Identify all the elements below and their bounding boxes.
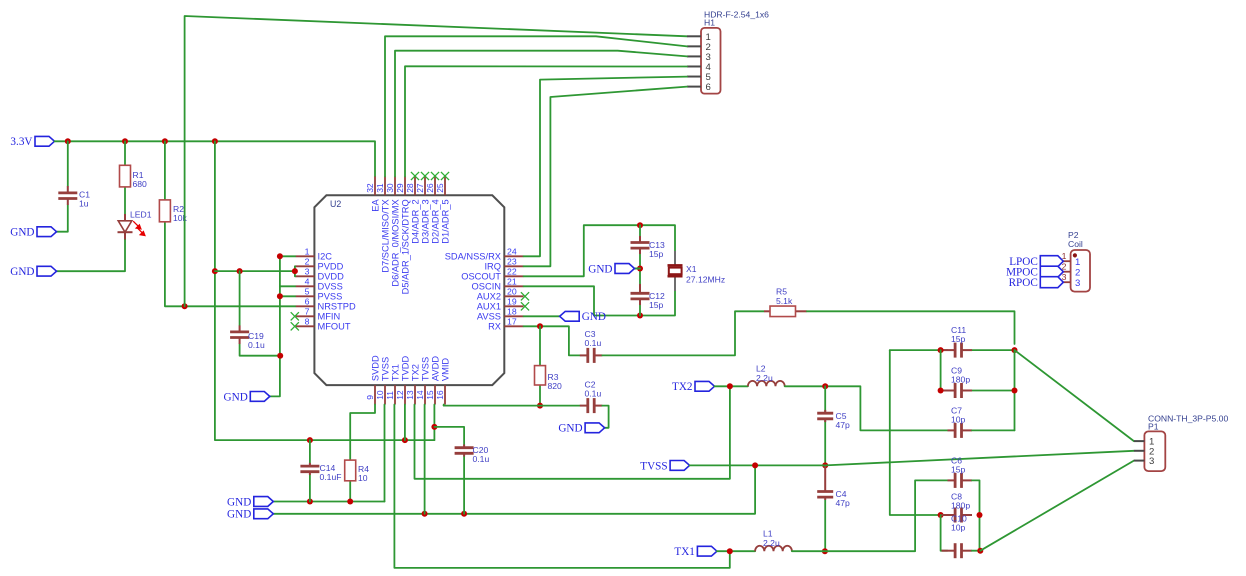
junction C4/TX1 bbox=[822, 548, 828, 554]
junction R4/row1 bbox=[347, 499, 353, 505]
svg-text:26: 26 bbox=[425, 183, 435, 193]
wire TX1 line bbox=[717, 550, 755, 552]
svg-text:1u: 1u bbox=[79, 199, 89, 209]
net label RPOC bbox=[1009, 277, 1064, 289]
wire C20 bottom lead bbox=[463, 457, 465, 514]
junction C14/row1 bbox=[307, 499, 313, 505]
capacitor C14 bbox=[300, 463, 341, 482]
junction NRSTPD/H1 wire bbox=[182, 303, 188, 309]
capacitor C2 bbox=[580, 379, 603, 413]
wire TX2 pin13 jog bbox=[415, 386, 730, 479]
crystal X1 bbox=[668, 251, 726, 291]
wire crystal GND stub bbox=[635, 268, 641, 270]
svg-text:GND: GND bbox=[10, 227, 34, 239]
wire H1 pin5 to U2 pin24 bbox=[524, 77, 688, 257]
junction 3.3V/R1 bbox=[122, 138, 128, 144]
U2 pin 3 DVDD bbox=[296, 267, 344, 282]
wire C10 right bbox=[972, 550, 980, 552]
wire H1 pin4 to U2 pin29 bbox=[405, 66, 687, 176]
U2 pin 31 D7/SCL/MISO/TX bbox=[375, 177, 390, 273]
svg-text:MFOUT: MFOUT bbox=[318, 322, 351, 332]
capacitor C4 bbox=[817, 465, 850, 508]
wire H1 pin2 to U2 pin31 bbox=[385, 36, 687, 176]
U2 pin 27 D3/ADR_3 bbox=[415, 177, 430, 244]
svg-text:0.1uF: 0.1uF bbox=[320, 472, 342, 482]
capacitor C11 bbox=[942, 325, 973, 358]
svg-text:D3/ADR_3: D3/ADR_3 bbox=[420, 199, 430, 243]
no-connect pin 25 bbox=[441, 172, 449, 180]
svg-text:U2: U2 bbox=[330, 199, 341, 209]
capacitor C19 bbox=[230, 325, 265, 350]
svg-text:NRSTPD: NRSTPD bbox=[318, 302, 357, 312]
junction TX2/jog bbox=[727, 383, 733, 389]
H1 pin 1 bbox=[687, 32, 711, 43]
H1 pin 4 bbox=[687, 62, 712, 73]
svg-text:X1: X1 bbox=[686, 264, 697, 274]
junction C14/rail bbox=[307, 437, 313, 443]
junction pin14/row2 bbox=[422, 511, 428, 517]
capacitor C6 bbox=[948, 456, 973, 488]
wire R3 top lead bbox=[539, 326, 541, 365]
resistor R3 bbox=[535, 366, 563, 391]
P1 pin 1 bbox=[1134, 437, 1154, 448]
svg-text:GND: GND bbox=[582, 311, 606, 323]
U2 pin 18 AVSS bbox=[477, 307, 524, 322]
svg-text:31: 31 bbox=[375, 183, 385, 193]
svg-text:DVDD: DVDD bbox=[318, 272, 345, 282]
svg-text:47p: 47p bbox=[836, 498, 851, 508]
U2 pin 30 D6/ADR_0/MOSI/MX bbox=[385, 177, 400, 287]
svg-text:IRQ: IRQ bbox=[484, 262, 501, 272]
svg-text:MFIN: MFIN bbox=[318, 312, 341, 322]
no-connect pin 19 AUX1 bbox=[521, 302, 529, 310]
svg-text:15: 15 bbox=[425, 390, 435, 400]
junction C5 top bbox=[822, 383, 828, 389]
svg-text:18: 18 bbox=[507, 307, 517, 317]
junction C10 right bbox=[977, 548, 983, 554]
U2 pin 24 SDA/NSS/RX bbox=[445, 247, 524, 262]
svg-text:6: 6 bbox=[706, 82, 711, 93]
no-connect pin 28 bbox=[411, 172, 419, 180]
U2 pin 29 D5/ADR_1/SCK/DTRQ bbox=[395, 177, 410, 295]
P1 pin 2 bbox=[1134, 446, 1154, 457]
svg-text:0.1u: 0.1u bbox=[248, 340, 265, 350]
connector P1 bbox=[1144, 414, 1228, 472]
wire diagonal C11 to P1 pin1 bbox=[1015, 350, 1134, 441]
svg-text:D6/ADR_0/MOSI/MX: D6/ADR_0/MOSI/MX bbox=[390, 199, 400, 286]
junction crystal GND bbox=[637, 266, 643, 272]
wire VDD feed vertical bbox=[215, 141, 435, 440]
wire OSCIN to crystal bottom bbox=[524, 286, 676, 315]
svg-text:RPOC: RPOC bbox=[1009, 277, 1038, 289]
svg-text:1: 1 bbox=[305, 247, 310, 257]
wire left ground vertical bbox=[270, 256, 280, 396]
svg-text:17: 17 bbox=[507, 317, 517, 327]
svg-text:4: 4 bbox=[305, 277, 310, 287]
U2 pin 25 D1/ADR_5 bbox=[435, 177, 450, 244]
P2 pin 2 bbox=[1061, 261, 1080, 278]
junction 3.3V/C1 bbox=[65, 138, 71, 144]
U2 pin 9 SVDD bbox=[365, 355, 380, 405]
svg-text:H1: H1 bbox=[704, 18, 715, 28]
P2 pin 1 bbox=[1061, 251, 1080, 268]
H1 pin 3 bbox=[687, 52, 711, 63]
wire C5 bottom lead bbox=[824, 419, 826, 465]
P2 pin 3 bbox=[1061, 272, 1080, 289]
capacitor C12 bbox=[631, 284, 665, 310]
svg-text:22: 22 bbox=[507, 267, 517, 277]
wire AVDD pin15 down bbox=[433, 405, 435, 441]
svg-text:21: 21 bbox=[507, 277, 517, 287]
svg-text:15p: 15p bbox=[649, 300, 664, 310]
junction TVDD/rail bbox=[402, 437, 408, 443]
wire C19 bottom bbox=[240, 344, 281, 356]
svg-text:1: 1 bbox=[1075, 257, 1080, 268]
U2 pin 15 AVDD bbox=[425, 356, 440, 405]
U2 pin 14 TVSS bbox=[415, 357, 430, 405]
wire TVSS pin14 down bbox=[424, 405, 426, 514]
svg-text:GND: GND bbox=[224, 391, 248, 403]
wire C9 row left bbox=[941, 390, 948, 392]
power label 3.3V bbox=[10, 136, 54, 148]
wire TX1 pin11 jog bbox=[394, 405, 729, 568]
net label TX2 bbox=[672, 381, 715, 393]
junction TVSS/row2 bbox=[752, 462, 758, 468]
LED LED1 bbox=[118, 210, 152, 241]
net label TX1 bbox=[674, 546, 717, 558]
resistor R2 bbox=[159, 200, 187, 223]
wire TVSS diagonal to P1 pin2 bbox=[825, 451, 1134, 466]
net label LPOC bbox=[1009, 256, 1063, 268]
wire C8-C10 left vertical bbox=[941, 515, 948, 551]
IC U2 bbox=[314, 195, 504, 385]
svg-text:6: 6 bbox=[305, 297, 310, 307]
svg-text:13: 13 bbox=[405, 390, 415, 400]
wire C12 bottom lead bbox=[639, 305, 641, 316]
no-connect pin 8 MFOUT bbox=[291, 322, 299, 330]
svg-text:AUX1: AUX1 bbox=[477, 302, 501, 312]
svg-text:GND: GND bbox=[588, 263, 612, 275]
svg-text:VMID: VMID bbox=[440, 358, 450, 382]
wire R1 top bbox=[124, 141, 126, 165]
svg-text:29: 29 bbox=[395, 183, 405, 193]
svg-text:8: 8 bbox=[305, 317, 310, 327]
svg-text:25: 25 bbox=[435, 183, 445, 193]
wire C7 right bbox=[972, 429, 1015, 431]
wire VMID line bbox=[443, 405, 445, 406]
svg-text:OSCOUT: OSCOUT bbox=[461, 272, 501, 282]
junction C20 branch bbox=[431, 424, 437, 430]
wire C14 top lead bbox=[309, 440, 311, 463]
svg-text:16: 16 bbox=[435, 390, 445, 400]
wire L1 to C6 bbox=[792, 480, 948, 551]
wire R4 bottom lead bbox=[349, 481, 351, 502]
svg-text:TX1: TX1 bbox=[390, 364, 400, 381]
capacitor C8 bbox=[942, 492, 973, 523]
wire I2C pin1 left bbox=[280, 255, 296, 257]
wire GND row1 bbox=[273, 501, 384, 503]
U2 pin 6 NRSTPD bbox=[296, 297, 356, 312]
U2 pin 28 D4/ADR_2 bbox=[405, 177, 420, 244]
svg-text:11: 11 bbox=[385, 391, 395, 400]
capacitor C9 bbox=[942, 366, 973, 399]
ground label GND (C1) bbox=[10, 227, 56, 239]
svg-text:30: 30 bbox=[385, 183, 395, 193]
wire VMID to C2 bbox=[444, 405, 580, 407]
svg-text:TX1: TX1 bbox=[674, 546, 695, 558]
svg-text:D2/ADR_4: D2/ADR_4 bbox=[430, 199, 440, 243]
wire L2 to C5 bbox=[785, 386, 948, 430]
wire TVSS line bbox=[690, 464, 826, 466]
capacitor C20 bbox=[455, 445, 490, 465]
svg-text:D1/ADR_5: D1/ADR_5 bbox=[440, 199, 450, 243]
svg-text:GND: GND bbox=[558, 423, 582, 435]
svg-text:0.1u: 0.1u bbox=[585, 388, 602, 398]
svg-text:180p: 180p bbox=[951, 375, 970, 385]
wire TX2 line bbox=[715, 385, 748, 387]
junction C8 right bbox=[977, 512, 983, 518]
svg-text:15p: 15p bbox=[951, 465, 966, 475]
svg-text:2.2u: 2.2u bbox=[763, 538, 780, 548]
junction pin1 vertical bbox=[277, 253, 283, 259]
svg-text:5.1k: 5.1k bbox=[776, 296, 793, 306]
wire C1 bottom to GND bbox=[57, 205, 68, 232]
junction C5/TVSS bbox=[822, 462, 828, 468]
svg-text:10p: 10p bbox=[951, 523, 966, 533]
wire pin5 branch bbox=[280, 295, 296, 297]
resistor R5 bbox=[764, 287, 807, 317]
capacitor C7 bbox=[948, 406, 973, 438]
U2 pin 4 DVSS bbox=[296, 277, 343, 292]
wire C1 top bbox=[67, 141, 69, 186]
svg-text:3: 3 bbox=[1149, 456, 1154, 467]
svg-text:23: 23 bbox=[507, 257, 517, 267]
svg-text:SVDD: SVDD bbox=[370, 355, 380, 381]
capacitor C10 bbox=[942, 514, 973, 559]
wire AVSS to GND bbox=[524, 315, 560, 317]
wire C20 branch bbox=[434, 427, 464, 445]
junction 3.3V/R2 bbox=[162, 138, 168, 144]
H1 pin 2 bbox=[687, 42, 711, 53]
U2 pin 19 AUX1 bbox=[477, 297, 524, 312]
svg-text:GND: GND bbox=[227, 509, 251, 521]
junction C11 right bbox=[1012, 347, 1018, 353]
svg-text:32: 32 bbox=[365, 183, 375, 193]
U2 pin 16 VMID bbox=[435, 358, 450, 405]
svg-text:D5/ADR_1/SCK/DTRQ: D5/ADR_1/SCK/DTRQ bbox=[400, 199, 410, 294]
svg-text:GND: GND bbox=[227, 496, 251, 508]
inductor L2 bbox=[748, 364, 785, 387]
wire LED1 cathode to GND bbox=[57, 240, 126, 271]
junction C11 left bbox=[938, 347, 944, 353]
no-connect pin 26 bbox=[431, 172, 439, 180]
svg-text:27: 27 bbox=[415, 183, 425, 193]
capacitor C3 bbox=[580, 329, 603, 363]
U2 pin 32 EA bbox=[365, 177, 380, 212]
wire C11-C9 left vertical bbox=[940, 350, 942, 390]
wire C13-C12 mid bbox=[639, 254, 641, 284]
svg-text:CONN-TH_3P-P5.00: CONN-TH_3P-P5.00 bbox=[1148, 414, 1228, 424]
svg-text:3.3V: 3.3V bbox=[10, 136, 32, 148]
svg-text:5: 5 bbox=[305, 287, 310, 297]
svg-text:3: 3 bbox=[305, 267, 310, 277]
U2 pin 5 PVSS bbox=[296, 287, 342, 302]
inductor L1 bbox=[755, 529, 792, 552]
U2 pin 8 MFOUT bbox=[296, 317, 351, 332]
wire OSCOUT to crystal top bbox=[524, 225, 676, 276]
connector H1 bbox=[701, 10, 769, 94]
wire GND row2 bbox=[273, 465, 755, 513]
no-connect pin 20 AUX2 bbox=[521, 292, 529, 300]
wire C14 bottom lead bbox=[309, 475, 311, 502]
junction C19 bottom bbox=[277, 353, 283, 359]
svg-text:180p: 180p bbox=[951, 501, 970, 511]
H1 pin 5 bbox=[687, 72, 711, 83]
svg-text:P1: P1 bbox=[1148, 422, 1159, 432]
svg-text:AUX2: AUX2 bbox=[477, 292, 501, 302]
junction C19 top bbox=[237, 268, 243, 274]
P1 pin 3 bbox=[1134, 456, 1154, 467]
no-connect pin 27 bbox=[421, 172, 429, 180]
junction C9 right bbox=[1012, 388, 1018, 394]
capacitor C13 bbox=[631, 236, 665, 259]
junction RX/R3 bbox=[537, 323, 543, 329]
junction pins2-3 tee bbox=[292, 268, 298, 274]
svg-text:PVSS: PVSS bbox=[318, 292, 343, 302]
svg-text:7: 7 bbox=[305, 307, 310, 317]
ground label GND (LED1) bbox=[10, 266, 56, 278]
svg-text:SDA/NSS/RX: SDA/NSS/RX bbox=[445, 252, 501, 262]
wire C11 row left bbox=[890, 349, 948, 351]
wire C9 row right bbox=[972, 390, 1015, 392]
wire R1 to LED1 bbox=[124, 187, 126, 221]
svg-text:3: 3 bbox=[1075, 278, 1080, 289]
wire pin4 branch bbox=[280, 285, 296, 287]
svg-text:LED1: LED1 bbox=[130, 210, 152, 220]
svg-text:12: 12 bbox=[395, 390, 405, 400]
wire PVDD line bbox=[215, 266, 296, 271]
capacitor C1 bbox=[58, 186, 90, 209]
svg-text:L2: L2 bbox=[756, 364, 766, 374]
svg-text:2: 2 bbox=[1075, 268, 1080, 279]
net label MPOC bbox=[1006, 266, 1063, 278]
junction C8 left bbox=[938, 512, 944, 518]
wire R2 bottom to NRSTPD bbox=[165, 222, 296, 306]
U2 pin 22 OSCOUT bbox=[461, 267, 523, 282]
wire RX line bbox=[524, 326, 580, 355]
resistor R4 bbox=[345, 460, 370, 483]
wire H1 pin3 to U2 pin30 bbox=[395, 51, 687, 177]
svg-text:0.1u: 0.1u bbox=[585, 338, 602, 348]
wire NRSTPD to H1 pin1 bbox=[185, 16, 687, 306]
U2 pin 11 TX1 bbox=[385, 364, 400, 404]
svg-text:TX2: TX2 bbox=[672, 381, 693, 393]
wire C3 to matching bbox=[602, 311, 764, 355]
svg-text:2.2u: 2.2u bbox=[756, 373, 773, 383]
wire C6 right down bbox=[972, 480, 980, 550]
wire C13 top lead bbox=[639, 225, 641, 236]
ground label GND (AVSS) bbox=[560, 311, 606, 323]
svg-text:D4/ADR_2: D4/ADR_2 bbox=[410, 199, 420, 243]
net label TVSS bbox=[640, 460, 689, 472]
svg-text:RX: RX bbox=[488, 322, 501, 332]
junction C9 left bbox=[938, 388, 944, 394]
svg-text:AVDD: AVDD bbox=[430, 356, 440, 381]
svg-text:2: 2 bbox=[305, 257, 310, 267]
svg-text:10: 10 bbox=[375, 390, 385, 400]
ground label GND (crystal) bbox=[588, 263, 634, 275]
U2 pin 13 TX2 bbox=[405, 364, 420, 404]
svg-text:24: 24 bbox=[507, 247, 517, 257]
svg-text:TX2: TX2 bbox=[410, 364, 420, 381]
wire C19 top lead bbox=[239, 271, 241, 325]
svg-text:TVSS: TVSS bbox=[380, 357, 390, 381]
ground label GND (row1) bbox=[227, 496, 273, 508]
svg-text:I2C: I2C bbox=[318, 252, 333, 262]
svg-text:9: 9 bbox=[365, 395, 375, 400]
junction TX1/jog bbox=[727, 548, 733, 554]
wire diagonal C10 to P1 pin3 bbox=[980, 461, 1134, 551]
svg-text:20: 20 bbox=[507, 287, 517, 297]
junction C12 bottom bbox=[637, 313, 643, 319]
U2 pin 2 PVDD bbox=[296, 257, 344, 272]
svg-text:14: 14 bbox=[415, 390, 425, 400]
wire R3 bottom lead bbox=[539, 385, 541, 406]
wire H1 pin6 to U2 pin23 bbox=[524, 87, 688, 267]
H1 pin 6 bbox=[687, 82, 711, 93]
svg-text:27.12MHz: 27.12MHz bbox=[686, 275, 725, 285]
svg-text:0.1u: 0.1u bbox=[473, 454, 490, 464]
svg-text:PVDD: PVDD bbox=[318, 262, 344, 272]
U2 pin 1 I2C bbox=[296, 247, 332, 262]
wire SVDD to R4 bbox=[350, 405, 375, 461]
ground label GND (chip left) bbox=[224, 391, 270, 403]
resistor R1 bbox=[120, 165, 148, 189]
svg-text:DVSS: DVSS bbox=[318, 282, 343, 292]
svg-text:TVSS: TVSS bbox=[420, 357, 430, 381]
ground label GND (C2) bbox=[558, 423, 604, 435]
junction pin5 vertical bbox=[277, 293, 283, 299]
wire C11 row right bbox=[972, 349, 1015, 351]
no-connect pin 7 MFIN bbox=[291, 312, 299, 320]
svg-text:GND: GND bbox=[10, 266, 34, 278]
connector P2 bbox=[1068, 230, 1090, 292]
U2 pin 7 MFIN bbox=[296, 307, 340, 322]
junction C13 top bbox=[637, 222, 643, 228]
svg-text:Coil: Coil bbox=[1068, 239, 1083, 249]
U2 pin 23 IRQ bbox=[484, 257, 523, 272]
junction R3/VMID bbox=[537, 403, 543, 409]
junction PVDD line bbox=[212, 268, 218, 274]
svg-text:TVDD: TVDD bbox=[400, 356, 410, 382]
svg-text:680: 680 bbox=[133, 179, 148, 189]
U2 pin 20 AUX2 bbox=[477, 287, 524, 302]
U2 pin 12 TVDD bbox=[395, 356, 410, 405]
svg-text:L1: L1 bbox=[763, 529, 773, 539]
wire C11-C7 right vertical bbox=[1014, 350, 1016, 430]
svg-text:47p: 47p bbox=[836, 420, 851, 430]
wire R2 top bbox=[164, 141, 166, 200]
wire 3.3V rail bbox=[55, 141, 376, 176]
wire C11 left drop bbox=[890, 350, 948, 515]
wire TVSS pin10 down bbox=[384, 405, 386, 502]
svg-text:TVSS: TVSS bbox=[640, 460, 667, 472]
svg-text:10p: 10p bbox=[951, 415, 966, 425]
svg-text:19: 19 bbox=[507, 297, 517, 307]
svg-text:28: 28 bbox=[405, 183, 415, 193]
junction 3.3V/VDD feed bbox=[212, 138, 218, 144]
U2 pin 10 TVSS bbox=[375, 357, 390, 405]
